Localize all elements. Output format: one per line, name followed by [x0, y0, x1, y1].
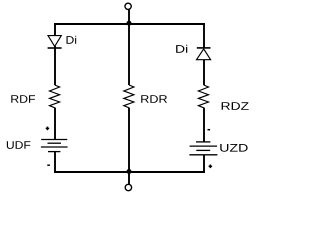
wire UDF to bottom rail: [54, 152, 56, 173]
label RDZ: [222, 102, 249, 110]
wire RDZ to UZD: [203, 108, 205, 142]
label RDR: [141, 95, 167, 103]
wire RDR to bottom rail: [128, 108, 130, 172]
diode Di (left): [48, 36, 61, 47]
wire UZD to bottom rail: [203, 155, 205, 173]
wire RDF to UDF: [54, 108, 56, 140]
wire right branch top to diode: [203, 23, 205, 48]
wire bottom rail to terminal: [128, 172, 130, 184]
wire left diode to RDF: [54, 46, 56, 85]
wire top terminal to rail: [128, 9, 130, 24]
resistor RDR: [124, 85, 134, 108]
wire left branch top to diode: [54, 23, 56, 35]
resistor RDF: [50, 85, 60, 108]
minus sign UZD: [208, 129, 211, 131]
terminal T1 (top): [125, 3, 131, 9]
label Di (right diode): [176, 45, 187, 53]
minus sign UDF: [47, 164, 50, 166]
label Di (left diode): [67, 36, 77, 44]
battery UDF: [41, 140, 68, 152]
label UZD: [220, 144, 247, 152]
label UDF: [7, 141, 30, 149]
plus sign UZD: [209, 165, 213, 169]
label RDF: [11, 95, 35, 103]
terminal T2 (bottom): [125, 184, 131, 190]
battery UZD: [189, 142, 217, 155]
wire bottom rail: [54, 171, 205, 173]
junction bottom node: [127, 169, 132, 174]
plus sign UDF: [46, 127, 50, 131]
wire middle branch top: [128, 24, 130, 85]
diode Di (right): [197, 47, 211, 49]
resistor RDZ: [198, 85, 208, 108]
junction top node: [127, 21, 132, 26]
wire top rail: [54, 23, 205, 25]
wire right diode to RDZ: [203, 60, 205, 85]
